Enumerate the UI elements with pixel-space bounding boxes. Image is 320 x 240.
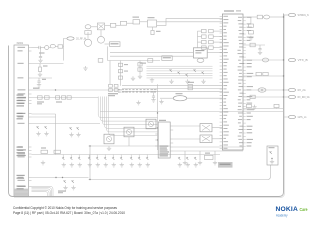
flag WTRM1_N [288,13,295,16]
wire row y60.5 [108,60,161,62]
label X2300 [159,120,166,121]
wire x110 drop [109,61,111,85]
ground [76,133,80,137]
wire stub [105,43,110,45]
connector X2300 body [158,122,170,158]
svg-text:WTRM1_N: WTRM1_N [298,13,309,17]
flag GPS [288,115,295,118]
flag TX_IQ [288,58,295,61]
ground [44,132,48,136]
wire [127,22,133,24]
bottom caps cluster A [62,155,64,158]
wire input row [32,47,39,49]
junction [89,145,90,146]
resistor R2318 [138,68,142,71]
label [41,148,46,149]
label C2402 value [39,53,45,54]
wire [105,24,111,26]
resistor R2511 [246,104,251,107]
wire row y111.5 long [100,111,284,113]
wire to flag [284,14,289,16]
vertical pair x140 [139,61,141,75]
svg-text:GPS_L1: GPS_L1 [298,115,308,119]
transistor V2330 box [104,134,114,144]
net label box [110,42,121,47]
ground [107,146,111,150]
svg-text:2G_RF_IN: 2G_RF_IN [76,37,86,41]
label Z2320 [176,93,183,94]
pins right [170,125,173,127]
wire row y52.3 [110,51,193,53]
capacitor C2316 [118,76,122,79]
module Z2520 box [267,146,278,165]
ground [159,100,163,104]
capacitor C2310 [148,59,153,63]
resistor R2317 [138,63,142,66]
label cluster [56,102,62,103]
wire row y97.5 [32,97,99,99]
wire row y147 [173,146,243,148]
block top pin labels [118,88,120,91]
wire drop x200 [199,151,201,160]
wire bottom row y154.5 [32,154,221,156]
resistor R2407 [45,96,50,99]
junction [283,96,284,97]
resistor R2503 [250,43,255,47]
capacitor C2408 [56,96,60,99]
decoupling pair row2 [202,35,207,38]
bottom caps cluster C [104,155,106,158]
wire [49,47,51,49]
wire osc row [91,26,97,28]
stacked net texts [160,146,169,147]
capacitor C2412 diag [70,127,72,130]
ground [38,72,42,76]
vertical wire x55.5 [55,114,57,155]
wire out row y17 [243,16,257,18]
IC left pins [220,17,223,149]
transistor V2332 box [146,119,156,129]
decoupling pair row1 [202,29,207,32]
wire row y117 [32,116,56,118]
bus fan wires [98,97,157,118]
wire to crystal row2 [173,138,200,140]
wire out row y60 [243,59,284,61]
resistor R2501 [257,15,262,19]
transistor V2331 box [124,127,134,137]
wire bus row3 [122,90,222,92]
resistor R2506 [256,72,261,75]
IC left pin names [223,15,228,18]
wire [55,46,58,48]
wire riser to input flag [63,39,67,47]
connector pin labels dense [17,95,24,96]
label [188,82,194,83]
wire to flag y117 [284,109,289,118]
band resistors [170,69,172,72]
ground [38,58,42,62]
ground [270,160,274,164]
svg-text:RX_2G: RX_2G [298,88,306,92]
bottom caps cluster E [178,157,180,160]
label chain [124,63,128,66]
crystal B2303 [200,135,212,143]
label Z2301 [133,17,140,18]
decoupling pair row3 [202,40,207,43]
vco module N2302 [193,48,207,58]
wire [212,127,222,129]
junction [55,177,56,178]
resistor R2403 shunt [39,64,41,68]
svg-text:Confidential Copyright © 2010: Confidential Copyright © 2010 Nokia Only… [13,206,117,210]
left components stack C2320/C2321 [109,84,113,87]
resistor R2507 [263,72,268,75]
resistor R2304 drop [152,27,154,30]
IC N2300 body [222,14,243,150]
wire out row y90 [243,89,284,91]
capacitor C2419 diag [72,180,74,183]
wire row y151 [173,150,243,152]
oval filter Z2320 [173,96,187,101]
label [205,153,210,154]
ground [63,186,67,190]
label [140,63,146,64]
IC right pins [243,18,246,147]
inductor L2501 [264,15,270,19]
IC right outside net labels [247,17,252,18]
ground [249,36,253,40]
resistor R2316 [118,70,122,73]
ground [36,132,40,136]
ferrite bead L2401 [45,46,49,50]
connector X2001 body [14,45,29,196]
wire row y90 long [32,89,123,91]
capacitor C2501 drop [248,24,253,27]
capacitor C2323 drop [153,91,155,96]
wire drop x185 [184,151,186,160]
label C2405 [42,79,46,80]
junction [55,89,56,90]
resistor R2412 diag [37,126,39,129]
wire riser x63.5 down [63,47,65,61]
wire [116,24,121,26]
vco output ellipse [197,58,204,62]
svg-text:X2001: X2001 [17,43,24,45]
vertical bus x157.5 [157,84,159,150]
wire main net loop border [9,14,284,197]
wire vco to IC [207,51,222,53]
connector X2001 shield hatch [14,189,28,196]
svg-text:VTX_B: VTX_B [298,58,308,62]
shaded net label box [218,162,233,168]
net label box band [162,56,172,61]
junction [271,158,272,159]
connector X2001 pins [29,48,32,187]
connector X2001 pin name texts [18,47,26,48]
label cluster [37,102,44,103]
ground [213,161,217,165]
filter Z2301 [133,20,140,24]
wire out row y45 [243,44,265,46]
resistor R2315 [118,63,122,66]
wire row y56.2 [110,55,193,57]
band grounds [169,79,173,83]
wire row y63.5 [32,63,64,65]
vertical wire x107.5 [107,46,109,60]
capacitor C2418 diag [64,180,66,183]
wire out row y76 [243,75,284,77]
junction [283,89,284,90]
crystal B2302 [200,124,212,132]
resistor R2509 [250,95,255,98]
component R2311 [98,59,103,63]
svg-text:Page 8 (11) | RF part | 05: Page 8 (11) | RF part | 05-Oct-10 RM-627… [13,211,125,215]
wire [212,138,222,140]
bottom caps cluster D [130,155,132,158]
resistor R2340 [205,155,214,159]
wire [100,30,102,36]
wire drop x215 [214,151,216,160]
wire row y98.2 [160,97,173,99]
resistor R2401 [58,45,63,48]
wire long row y179.5 to right [89,165,271,180]
wire out row y108.5 [243,108,284,110]
resistor R2406 [38,96,43,99]
flag RX3G [288,95,295,98]
label T2301 [148,17,155,18]
ground [83,66,87,70]
label R2403 [43,66,48,67]
capacitor diag in Z2520 [270,151,272,154]
resistor R2416 [54,150,61,153]
wire loop shadow [14,15,285,198]
junction [283,16,284,17]
resistor R2410 [67,96,71,99]
ground [198,161,202,165]
ground [41,161,45,165]
ground [151,98,155,102]
svg-text:Care: Care [300,207,308,212]
capacitor C2504 drop [259,45,261,49]
wire [270,16,284,18]
wire row y146 [89,145,171,147]
series resistor pack R2320 [188,84,192,87]
balun T2301 [147,20,156,27]
pin labels y147-157 [17,147,23,148]
ground [138,74,142,78]
IC right pin names [238,16,242,19]
wire [40,47,44,49]
flag RX2G [288,88,295,91]
dense labels [108,93,118,94]
inductor L2301 [85,25,91,29]
wire row y177.5 [32,177,89,179]
wire to N2300 pin a [157,21,223,23]
junction [283,75,284,76]
crystal B2301 box [97,23,104,30]
bottom caps cluster B [88,155,90,158]
junction [157,112,158,113]
resistor R2302 [110,23,115,27]
capacitor C2512 [274,104,279,107]
wire bus row2 [122,88,222,90]
ferrite bead L2503 [258,88,266,92]
resistor R2301 [85,31,91,35]
wire [87,32,89,39]
wire to flag [284,96,289,98]
wire bus row1 [122,85,222,87]
ground [131,76,135,80]
net label [33,88,40,89]
label [269,147,275,148]
resistor R2409 [62,96,66,99]
pin labels y175-189 [17,175,25,176]
wire to crystal row1 [173,125,200,127]
ground [183,161,187,165]
ground [136,101,140,105]
wire row y78 [32,77,53,79]
feed wire x197.5 [197,31,199,47]
wire [140,21,148,23]
oscillator can G2302 [98,36,105,43]
resistor R2413 diag [45,126,47,129]
ground [150,78,154,82]
wire to flag [284,89,289,91]
svg-text:RX_900_3G: RX_900_3G [298,95,310,99]
net label [58,191,66,192]
bus wires band [147,65,213,67]
junction [89,179,90,180]
ground [71,186,75,190]
svg-text:Academy: Academy [276,214,288,218]
label [156,31,161,32]
ground [258,50,262,54]
ground [37,83,41,87]
capacitor C2403 shunt [40,48,42,57]
pins left [155,127,158,129]
input flag RF_IN [67,37,74,40]
capacitor C2502 [248,31,253,34]
ground [252,105,256,109]
pin labels y113-118 [17,113,26,114]
svg-text:NOKIA: NOKIA [276,206,299,213]
wire [128,137,130,146]
ground [69,133,73,137]
crystal G2301 can [84,39,91,46]
wire row y114 [32,113,56,115]
wire [262,16,263,18]
inductor L2402 [50,44,55,48]
wire row y123.5 [32,123,101,125]
vertical chain x120 [120,61,122,86]
inductor L2502 [262,58,268,62]
junction [283,59,284,60]
vertical wire x90 [89,146,91,180]
resistor R2303 [120,21,126,25]
resistor R2415 [41,150,48,153]
bus ribbon from connector [32,186,54,196]
decoupling pair row4 [202,46,207,49]
wire to N2300 pin b [157,18,223,25]
wire out row y97 [243,96,284,98]
IC N2300 label [224,10,234,11]
capacitor C2405 [38,78,40,81]
capacitor C2402 [39,46,40,49]
capacitor C2413 diag [77,127,79,130]
